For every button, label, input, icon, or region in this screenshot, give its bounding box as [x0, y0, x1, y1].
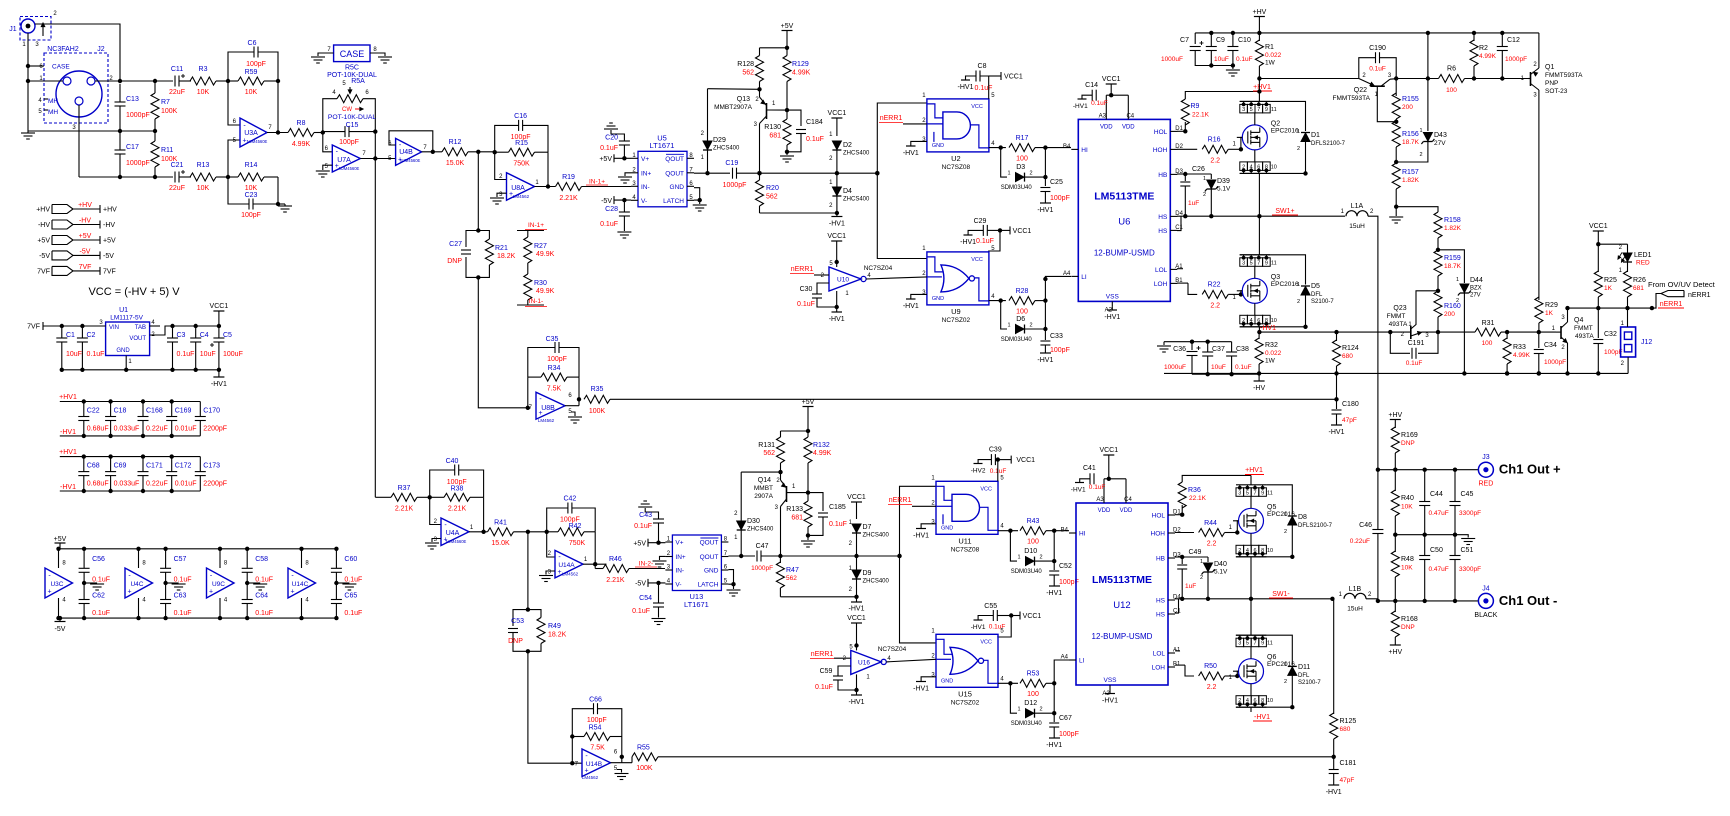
svg-text:49.9K: 49.9K [536, 251, 555, 258]
svg-text:VCC1: VCC1 [1102, 76, 1121, 83]
svg-text:C47: C47 [756, 543, 769, 550]
svg-text:-HV1: -HV1 [1046, 742, 1062, 749]
svg-text:U4C: U4C [130, 581, 143, 588]
svg-text:1: 1 [1456, 277, 1459, 283]
wire gate bus vertical [900, 486, 937, 643]
wire to Q6 gate [1237, 671, 1238, 676]
svg-text:R32: R32 [1265, 342, 1278, 349]
svg-text:MH: MH [48, 98, 58, 105]
ground [84, 582, 97, 584]
wire C23 loop [228, 177, 249, 204]
svg-text:C4: C4 [1124, 497, 1132, 503]
svg-text:NJM4560E: NJM4560E [339, 166, 360, 171]
svg-text:C6: C6 [248, 40, 257, 47]
wire R5A left [323, 99, 337, 132]
svg-text:From OV/UV Detect: From OV/UV Detect [1648, 280, 1716, 289]
wire bus to D7 D9 [780, 555, 899, 557]
svg-text:R26: R26 [1633, 277, 1646, 284]
svg-text:1000pF: 1000pF [1544, 359, 1566, 366]
svg-text:C41: C41 [1083, 465, 1096, 472]
capacitor C23 [248, 199, 250, 210]
capacitor C170 [195, 416, 206, 418]
svg-text:ZHCS400: ZHCS400 [863, 533, 890, 539]
svg-text:IN+: IN+ [675, 554, 686, 561]
svg-text:C173: C173 [203, 463, 220, 470]
wire to R158 [1396, 207, 1438, 212]
svg-text:D43: D43 [1434, 132, 1447, 139]
svg-text:U16: U16 [858, 660, 870, 667]
power -HV1 [836, 213, 838, 217]
svg-text:D6: D6 [1016, 316, 1025, 323]
svg-text:0.1uF: 0.1uF [806, 136, 824, 143]
svg-text:R11: R11 [161, 147, 173, 154]
wire cap bank bottom bus [60, 435, 201, 437]
svg-text:100: 100 [1446, 87, 1457, 94]
svg-text:nERR1: nERR1 [880, 115, 903, 122]
resistor R169 [1391, 427, 1399, 453]
svg-text:4.99K: 4.99K [1513, 352, 1531, 359]
svg-text:LI: LI [1081, 274, 1087, 281]
resistor R11 [151, 141, 159, 167]
svg-text:2: 2 [1039, 707, 1042, 713]
svg-text:1000pF: 1000pF [751, 565, 773, 572]
wire Q3 source rail [1240, 326, 1306, 328]
wire cap gnd bus [1211, 65, 1233, 67]
resistor R159 [1434, 250, 1442, 276]
wire U10 to -HV1 [836, 291, 838, 312]
svg-text:D1: D1 [1311, 132, 1320, 139]
svg-text:100pF: 100pF [241, 212, 261, 219]
svg-text:-HV: -HV [103, 222, 115, 229]
wire U14A pin3 ground [546, 571, 555, 575]
capacitor C66 [593, 703, 595, 714]
svg-text:R28: R28 [1016, 288, 1029, 295]
power VCC1 [1103, 454, 1114, 456]
svg-text:R27: R27 [534, 243, 547, 250]
svg-text:2: 2 [1200, 575, 1203, 581]
svg-text:S2100-7: S2100-7 [1311, 299, 1334, 305]
svg-text:10K: 10K [245, 89, 258, 96]
op-amp U4C [125, 561, 153, 604]
svg-text:J1: J1 [9, 26, 17, 33]
svg-text:PNP: PNP [1545, 80, 1558, 87]
resistor R158 [1434, 212, 1442, 238]
svg-text:U7A: U7A [337, 157, 351, 164]
svg-text:C4: C4 [1126, 113, 1134, 119]
svg-text:VOUT: VOUT [129, 336, 146, 342]
wire GND LATCH [694, 188, 700, 200]
capacitor C55 [992, 610, 994, 621]
wire U4B output [422, 151, 442, 153]
svg-text:U4A: U4A [446, 530, 460, 537]
resistor R129 [786, 48, 788, 56]
svg-text:C191: C191 [1408, 340, 1425, 347]
svg-text:SOT-23: SOT-23 [1545, 88, 1568, 95]
ground [247, 582, 260, 584]
svg-text:GND: GND [116, 348, 130, 354]
svg-text:C69: C69 [114, 463, 127, 470]
transistor Q22 [1333, 73, 1397, 122]
svg-text:R128: R128 [737, 61, 754, 68]
wire HS pins join [1177, 216, 1181, 230]
svg-text:C38: C38 [1236, 346, 1249, 353]
capacitor C41 [1089, 473, 1091, 484]
svg-text:R36: R36 [1188, 487, 1201, 494]
svg-text:-5V: -5V [601, 198, 612, 205]
wire J4 bus [1378, 600, 1479, 602]
svg-text:VCC1: VCC1 [1004, 74, 1023, 81]
ground [539, 575, 553, 577]
svg-text:3300pF: 3300pF [1459, 566, 1481, 573]
svg-text:0.1uF: 0.1uF [344, 610, 362, 617]
svg-text:C11: C11 [171, 66, 183, 73]
svg-text:J2: J2 [97, 46, 105, 53]
svg-text:D4: D4 [843, 188, 852, 195]
svg-text:C59: C59 [820, 668, 833, 675]
wire cap bank bottom bus [60, 490, 201, 492]
resistor R14 [238, 173, 264, 181]
resistor R15 [509, 148, 535, 156]
svg-text:0.22uF: 0.22uF [1350, 538, 1370, 545]
svg-text:562: 562 [742, 70, 754, 77]
svg-text:BLACK: BLACK [1474, 612, 1497, 619]
svg-text:C170: C170 [203, 408, 220, 415]
op-amp U7A [325, 145, 367, 172]
resistor R156 [1392, 121, 1400, 147]
svg-text:R130: R130 [764, 124, 781, 131]
wire QOUT bus [694, 172, 730, 174]
ground [1462, 535, 1468, 538]
svg-text:C64: C64 [255, 593, 268, 600]
capacitor C65 [331, 599, 342, 601]
capacitor C45 [1454, 470, 1456, 501]
svg-text:LM1117-5V: LM1117-5V [110, 315, 143, 322]
svg-text:R20: R20 [766, 185, 779, 192]
transistor Q6 EPC2016 [1236, 638, 1244, 647]
capacitor C52 [1052, 559, 1056, 563]
svg-text:100K: 100K [636, 765, 653, 772]
ground [727, 589, 741, 591]
svg-text:R55: R55 [637, 745, 650, 752]
wire V- pin [614, 199, 631, 201]
svg-text:U10: U10 [837, 277, 849, 284]
svg-text:HOH: HOH [1151, 531, 1166, 538]
svg-text:C26: C26 [1192, 166, 1205, 173]
resistor R55 [632, 753, 658, 761]
svg-text:HB: HB [1158, 172, 1167, 179]
svg-text:15.0K: 15.0K [491, 540, 510, 547]
resistor R131 [780, 431, 782, 437]
power VCC1 [831, 117, 842, 119]
svg-text:POT-10K-DUAL: POT-10K-DUAL [328, 114, 377, 121]
svg-text:-HV1: -HV1 [1329, 429, 1345, 436]
power VCC1 [213, 310, 224, 312]
zener D40 [1207, 557, 1209, 562]
svg-text:-5V: -5V [103, 253, 114, 260]
svg-text:-HV1: -HV1 [1073, 103, 1088, 110]
capacitor C68 [78, 471, 89, 473]
svg-text:D44: D44 [1470, 277, 1483, 284]
svg-text:100pF: 100pF [547, 356, 567, 363]
power flag 7VF [37, 264, 116, 276]
wire R47 to -HV1 node [780, 596, 856, 598]
svg-text:2.21K: 2.21K [606, 577, 625, 584]
svg-text:0.1uF: 0.1uF [174, 610, 192, 617]
wire nERR bus vertical [877, 103, 927, 259]
svg-text:FMMT: FMMT [1387, 313, 1406, 320]
svg-text:10uF: 10uF [66, 351, 82, 358]
svg-text:47pF: 47pF [1340, 777, 1355, 784]
resistor R48 [1394, 535, 1396, 552]
svg-text:C52: C52 [1059, 563, 1072, 570]
svg-text:HS: HS [1156, 612, 1166, 619]
svg-text:2.2: 2.2 [1207, 541, 1217, 548]
capacitor C16 [518, 120, 520, 131]
svg-text:SDM03U40: SDM03U40 [1001, 185, 1033, 191]
svg-text:D2: D2 [843, 142, 852, 149]
svg-text:-HV1: -HV1 [1254, 714, 1270, 721]
wire L1B out [1366, 598, 1378, 600]
svg-text:0.01uF: 0.01uF [175, 481, 197, 488]
power flag +5V [37, 233, 116, 245]
svg-text:R7: R7 [161, 99, 170, 106]
svg-text:VCC1: VCC1 [1099, 447, 1118, 454]
svg-text:Q14: Q14 [758, 477, 771, 484]
svg-text:R168: R168 [1401, 616, 1418, 623]
wire U14A output [583, 563, 607, 565]
wire V- pin [648, 582, 665, 584]
svg-text:0.1uF: 0.1uF [600, 145, 618, 152]
svg-text:C27: C27 [449, 241, 462, 248]
wire J3 bus [1378, 469, 1479, 471]
capacitor C42 [567, 503, 569, 514]
svg-text:U11: U11 [958, 536, 971, 545]
op-amp U4A [434, 518, 474, 546]
svg-text:R19: R19 [562, 174, 575, 181]
svg-text:R48: R48 [1401, 556, 1414, 563]
wire buffer power [301, 549, 303, 568]
svg-text:Q23: Q23 [1393, 305, 1406, 312]
svg-text:nERR1: nERR1 [1660, 301, 1683, 308]
svg-text:R54: R54 [589, 725, 602, 732]
svg-text:SDM03U40: SDM03U40 [1011, 569, 1043, 575]
svg-text:C12: C12 [1507, 37, 1520, 44]
svg-text:5: 5 [1246, 641, 1249, 647]
svg-text:U15: U15 [958, 689, 972, 698]
svg-text:-HV1: -HV1 [60, 484, 76, 491]
svg-text:0.1uF: 0.1uF [829, 521, 847, 528]
wire LOL join [1177, 268, 1183, 270]
svg-text:49.9K: 49.9K [536, 288, 555, 295]
resistor R168 [1394, 601, 1396, 612]
wire CASE pin7 [318, 53, 334, 56]
resistor R44 [1175, 532, 1194, 534]
svg-text:7VF: 7VF [79, 264, 92, 271]
svg-text:IN+: IN+ [641, 170, 652, 177]
capacitor C44 [1424, 470, 1426, 501]
svg-text:22uF: 22uF [169, 89, 185, 96]
svg-text:7: 7 [1257, 107, 1260, 113]
svg-text:-HV1: -HV1 [211, 381, 227, 388]
wire Q2 source rail [1240, 172, 1306, 174]
svg-text:C168: C168 [146, 408, 163, 415]
power VCC1 [831, 240, 842, 242]
svg-text:D9: D9 [863, 570, 872, 577]
svg-text:3: 3 [1238, 641, 1241, 647]
svg-text:VDD: VDD [1100, 124, 1113, 130]
resistor R124 [1336, 332, 1338, 341]
svg-text:0.1uF: 0.1uF [797, 301, 815, 308]
svg-text:C39: C39 [989, 447, 1002, 454]
svg-text:DNP: DNP [447, 258, 462, 265]
svg-text:22.1K: 22.1K [1192, 112, 1210, 119]
transistor Q13 [714, 89, 789, 173]
wire U16 to -HV1 [856, 674, 858, 695]
svg-text:2: 2 [1284, 679, 1287, 685]
svg-text:7VF: 7VF [103, 268, 116, 275]
svg-text:1W: 1W [1265, 358, 1276, 365]
capacitor C191 [1388, 330, 1392, 334]
capacitor C39 [990, 454, 992, 465]
ground [378, 56, 392, 58]
wire buffer bottom bus [60, 617, 336, 619]
svg-text:R31: R31 [1482, 320, 1495, 327]
svg-text:IN-1+: IN-1+ [589, 179, 605, 186]
svg-text:ZHCS400: ZHCS400 [843, 197, 870, 203]
svg-text:0.1uF: 0.1uF [632, 608, 650, 615]
diode D11 [1266, 635, 1292, 665]
svg-text:HOL: HOL [1154, 129, 1168, 136]
ground [807, 535, 809, 540]
power -HV1 [1049, 585, 1060, 587]
svg-text:HI: HI [1081, 147, 1088, 154]
resistor R32 [1258, 332, 1260, 339]
svg-text:Q22: Q22 [1354, 87, 1367, 94]
capacitor C32 [1597, 308, 1599, 338]
svg-text:VSS: VSS [1103, 677, 1117, 684]
wire HS rail SW1+ [1177, 215, 1345, 217]
capacitor C21 [174, 172, 176, 183]
svg-text:100: 100 [1016, 309, 1028, 316]
wire to U14A pin2 [547, 532, 555, 557]
svg-text:R47: R47 [786, 567, 799, 574]
svg-text:10: 10 [1271, 318, 1277, 324]
svg-text:C43: C43 [639, 512, 652, 519]
svg-text:HB: HB [1156, 556, 1165, 563]
svg-text:C184: C184 [806, 119, 823, 126]
svg-text:1: 1 [1284, 662, 1287, 668]
svg-text:C25: C25 [1050, 179, 1063, 186]
svg-text:VCC1: VCC1 [847, 494, 866, 501]
inductor L1A [1346, 211, 1368, 217]
svg-text:C53: C53 [511, 618, 524, 625]
svg-text:A4: A4 [1061, 655, 1069, 661]
svg-text:2: 2 [1297, 146, 1300, 152]
svg-text:C42: C42 [563, 496, 576, 503]
capacitor C2 [77, 337, 88, 339]
op-amp U8B [529, 392, 573, 423]
diode D8 [1266, 485, 1292, 515]
capacitor C63 [160, 599, 171, 601]
svg-text:D29: D29 [713, 137, 726, 144]
capacitor C184 [787, 110, 801, 126]
capacitor C171 [138, 471, 149, 473]
svg-text:2: 2 [1297, 299, 1300, 305]
capacitor C4 [190, 337, 201, 339]
svg-text:C21: C21 [171, 162, 184, 169]
svg-text:Q5: Q5 [1267, 504, 1276, 511]
svg-text:7.5K: 7.5K [547, 386, 562, 393]
wire CASE pin6 [28, 65, 44, 67]
svg-text:D30: D30 [747, 518, 760, 525]
resistor R132 [807, 431, 809, 437]
capacitor C28 [619, 211, 630, 213]
wire C29 to pin5 [989, 230, 1000, 252]
wire U2 output [989, 147, 1006, 149]
svg-text:0.22uF: 0.22uF [146, 426, 168, 433]
svg-text:1: 1 [1200, 559, 1203, 565]
svg-text:MMBT2907A: MMBT2907A [714, 104, 753, 111]
svg-text:1: 1 [1419, 128, 1422, 134]
svg-text:15uH: 15uH [1349, 223, 1365, 230]
svg-text:+5V: +5V [37, 238, 50, 245]
svg-text:nERR1: nERR1 [1688, 292, 1711, 299]
diode D3 [1001, 148, 1007, 178]
wire +5V bus [781, 430, 809, 432]
wire feedback R42 right [594, 564, 596, 568]
svg-text:LM4562: LM4562 [562, 572, 579, 577]
wire LOL join [1175, 650, 1180, 652]
svg-text:C190: C190 [1369, 45, 1386, 52]
svg-text:C49: C49 [1189, 549, 1202, 556]
capacitor C47 [756, 551, 758, 562]
wire U15 output [998, 682, 1018, 684]
svg-text:27V: 27V [1434, 140, 1446, 147]
svg-text:5.1V: 5.1V [1214, 569, 1228, 576]
svg-text:9: 9 [1261, 490, 1264, 496]
wire U4B node down to R37 [374, 159, 376, 498]
svg-text:-HV1: -HV1 [829, 316, 845, 323]
svg-text:C62: C62 [92, 593, 105, 600]
svg-text:100pF: 100pF [339, 139, 359, 146]
wire mid bus [1395, 534, 1462, 536]
svg-text:DFLS2100-7: DFLS2100-7 [1311, 141, 1346, 147]
svg-text:+HV: +HV [1388, 649, 1402, 656]
wire U10 out to U9 [866, 277, 927, 279]
svg-text:GND: GND [670, 184, 685, 191]
svg-text:C1: C1 [66, 332, 75, 339]
ground [1232, 66, 1234, 70]
svg-text:NC3FAH2: NC3FAH2 [47, 46, 79, 53]
svg-text:0.022: 0.022 [1265, 52, 1282, 59]
capacitor C37 [1207, 342, 1209, 352]
svg-text:12-BUMP-USMD: 12-BUMP-USMD [1092, 632, 1153, 641]
resistor R35 [584, 395, 610, 403]
svg-text:NC7SZ08: NC7SZ08 [942, 164, 971, 171]
resistor R37 [391, 493, 417, 501]
svg-text:2.21K: 2.21K [559, 195, 578, 202]
svg-text:C13: C13 [126, 96, 139, 103]
svg-text:15uH: 15uH [1347, 606, 1363, 613]
svg-text:100pF: 100pF [1059, 731, 1079, 738]
resistor R38 [444, 493, 470, 501]
svg-text:R25: R25 [1604, 277, 1617, 284]
resistor R36 [1181, 505, 1183, 515]
capacitor C173 [195, 471, 206, 473]
svg-text:VCC1: VCC1 [210, 303, 229, 310]
svg-text:SW1-: SW1- [1272, 591, 1290, 598]
svg-text:DFL: DFL [1298, 673, 1310, 679]
